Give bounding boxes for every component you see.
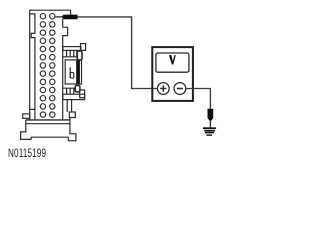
wire probe to ground: [209, 120, 211, 128]
voltmeter plus terminal: [157, 83, 169, 95]
relay cap top: [63, 47, 81, 51]
relay bottom corner block: [80, 90, 85, 98]
pin circles grid: [40, 14, 55, 118]
wire pin to probe: [55, 16, 62, 18]
bracket right leg foot: [68, 118, 76, 141]
inner wall left: [30, 14, 35, 119]
inner wall bottom rung: [30, 108, 35, 110]
relay bottom bump: [75, 85, 80, 91]
left tab at bottom: [23, 114, 30, 118]
relay bottom comb: [63, 88, 75, 94]
black probe on ground lead: [208, 109, 214, 121]
voltmeter screen: [156, 53, 189, 72]
relay body tab bump: [70, 72, 74, 78]
figure number label: [8, 146, 46, 160]
relay pin foot box: [69, 112, 75, 118]
relay body: [65, 60, 81, 84]
voltmeter V label: [169, 55, 176, 64]
voltmeter minus terminal: [174, 83, 186, 95]
bottom bracket bar bottom: [31, 136, 68, 138]
connector body outline: [30, 10, 71, 120]
relay bottom pin: [67, 100, 71, 112]
wire minus to ground: [186, 89, 211, 110]
ground symbol: [203, 128, 216, 135]
wire probe to voltmeter plus: [78, 17, 158, 89]
bottom bracket bar top: [26, 123, 70, 125]
relay bottom cap: [63, 94, 85, 99]
black test probe left: [62, 15, 78, 20]
relay body black bar: [76, 60, 80, 83]
voltmeter body: [152, 47, 193, 101]
connector right edge with latch bump: [63, 19, 68, 120]
relay top bump: [77, 51, 82, 60]
connector bottom edge: [26, 119, 70, 121]
relay body tab: [69, 67, 71, 78]
relay cap corner block: [81, 44, 86, 51]
relay top comb: [63, 50, 77, 56]
bracket left leg foot: [21, 120, 31, 139]
